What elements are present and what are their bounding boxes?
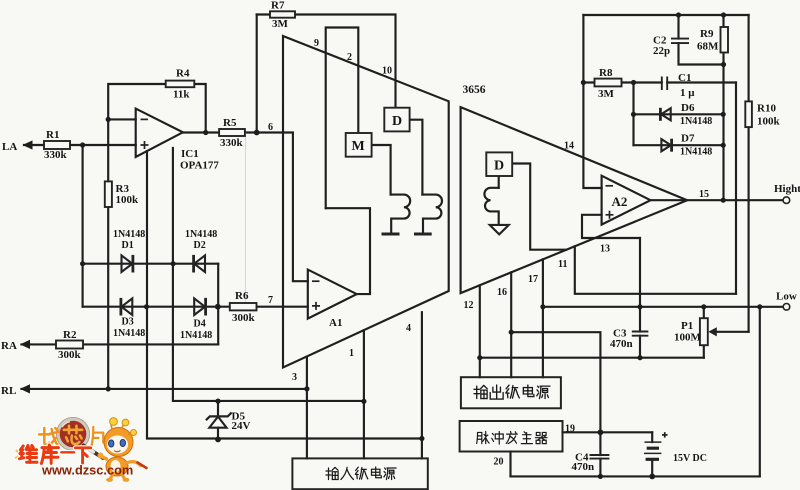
zener D5 24V triangle (209, 417, 226, 428)
svg-text:470n: 470n (572, 461, 595, 473)
node D3 row junction V- (144, 304, 149, 309)
label char 级 of 输入级电源 (355, 467, 368, 479)
svg-text:D1: D1 (122, 240, 134, 251)
svg-text:15V DC: 15V DC (673, 453, 707, 464)
svg-text:R5: R5 (223, 117, 237, 129)
wire C4 stems (599, 432, 601, 476)
diode D1 1N4148 triangle (122, 255, 133, 272)
svg-text:470n: 470n (610, 338, 633, 350)
label char 生 of 脉冲发生器 (521, 432, 532, 444)
wire RL input row (22, 388, 307, 390)
wire C2 branch (679, 15, 724, 65)
wire R4 right down to output row (194, 84, 205, 133)
watermark char 一 (61, 451, 74, 454)
svg-text:20: 20 (494, 457, 504, 468)
wire right vertical Low to bottom rail (759, 307, 761, 477)
svg-text:1N4148: 1N4148 (113, 328, 145, 339)
3656 output section triangle (461, 107, 688, 293)
wire pin 3 vertical to supply box (306, 357, 308, 459)
3656 input section trapezoid (283, 36, 449, 368)
wire C1 right plate to vertical (667, 81, 736, 83)
watermark char 下 (75, 448, 90, 463)
svg-text:300k: 300k (232, 312, 256, 324)
PARTS_START (44, 11, 752, 348)
svg-text:P1: P1 (681, 320, 693, 332)
wire A1 output loop (326, 208, 370, 294)
svg-text:R2: R2 (63, 329, 77, 341)
diode D3 1N4148 triangle (122, 298, 133, 315)
coil L1 under M box (391, 195, 411, 232)
arrowhead RL (20, 384, 30, 393)
wire pin 15 output row to Hight terminal (651, 199, 784, 201)
wire R3 vertical from minus node to RL row (107, 119, 109, 389)
node D6 anode junction (631, 112, 636, 117)
wire M box right to modulator coil (372, 145, 391, 195)
resistor R5 330k (219, 129, 245, 136)
wire battery stems (651, 432, 653, 476)
coil L2 under D box (422, 195, 442, 232)
capacitor C3 470n plates (632, 332, 649, 336)
wire pin 17 vertical (542, 259, 544, 377)
svg-text:IC1: IC1 (181, 148, 199, 160)
node pin16 row junction (509, 330, 514, 335)
diode D4 bar (204, 298, 207, 316)
wire top rail R8/C2/R9/R10 (583, 14, 748, 16)
wire LA node vertical down to diode rows (82, 145, 84, 307)
node LA/R1 junction (80, 142, 85, 147)
svg-text:24V: 24V (232, 420, 251, 432)
node C3 bottom on row358 (637, 355, 642, 360)
diode D4 1N4148 triangle (194, 298, 205, 315)
ground arrow under output D box (490, 225, 509, 235)
magnifier circle of watermark (58, 419, 88, 449)
svg-text:4: 4 (406, 323, 411, 334)
node R9 top on rail (721, 12, 726, 17)
mascot mouth (114, 451, 121, 452)
resistor R6 300k (230, 303, 257, 310)
resistor R3 100k (105, 181, 112, 207)
svg-text:D3: D3 (122, 317, 134, 328)
svg-text:330k: 330k (44, 149, 68, 161)
label char 源 of 输入级电源 (384, 468, 396, 480)
diode D7 1N4148 triangle (661, 139, 671, 151)
watermark 维库一下 white outline (19, 445, 90, 463)
wire P1 stubs (703, 307, 705, 358)
wire D7 row (634, 144, 724, 146)
mascot head (104, 428, 133, 457)
label char 发 of 脉冲发生器 (506, 431, 517, 443)
wire D6 row (634, 113, 724, 115)
svg-text:1N4148: 1N4148 (113, 229, 145, 240)
capacitor C4 470n plates (590, 455, 610, 459)
watermark char 芯 inside magnifier (64, 426, 82, 444)
node C4 bottom on bottom rail (598, 474, 603, 479)
svg-text:R6: R6 (235, 290, 249, 302)
node right drop on Low rail (757, 304, 762, 309)
A2 plus sign (606, 211, 614, 219)
wire D out box right (512, 164, 566, 250)
node D5 anode row (215, 399, 220, 404)
resistor R7 3M (270, 11, 295, 17)
node D1 row junction V+ (171, 261, 176, 266)
ground bar under coil L1 (382, 233, 400, 236)
svg-text:1 μ: 1 μ (680, 87, 695, 99)
wire RA input row (22, 343, 219, 345)
box 脉冲发生器 pulse generator (460, 421, 563, 452)
svg-text:1: 1 (349, 348, 354, 359)
svg-text:9: 9 (314, 38, 319, 49)
watermark sparkle (15, 450, 21, 458)
node IC1 inverting input (106, 117, 111, 122)
op-amp IC1 triangle (136, 109, 183, 157)
svg-text:330k: 330k (220, 137, 244, 149)
resistor R2 300k (56, 341, 83, 349)
resistor R9 68M (721, 27, 729, 53)
battery B1 15V DC plates (644, 442, 661, 459)
svg-text:19: 19 (565, 424, 575, 435)
label char 出 of 输出级电源 (490, 385, 503, 399)
wire R9 branch (722, 15, 724, 200)
label char 输 of 输出级电源 (474, 385, 487, 398)
svg-text:LA: LA (2, 141, 17, 153)
mascot body (106, 457, 128, 476)
wire pin 14 vertical to A2 minus (583, 15, 601, 188)
A1 plus sign (312, 302, 320, 310)
diode D2 1N4148 triangle (194, 255, 205, 272)
mascot left arm to handle (101, 456, 107, 460)
svg-text:13: 13 (600, 244, 610, 255)
watermark char 找 white outline (39, 427, 103, 446)
coil L3 under output D box (484, 188, 498, 225)
node pin4 on row3 (419, 436, 424, 441)
svg-text:16: 16 (497, 287, 507, 298)
svg-text:R4: R4 (176, 68, 190, 80)
node pin1 on row2 (361, 399, 366, 404)
wire node 6 up to R7 row (256, 15, 258, 133)
svg-text:A2: A2 (612, 194, 628, 209)
node pin12 on row358 (477, 355, 482, 360)
svg-text:3M: 3M (598, 88, 615, 100)
svg-text:12: 12 (464, 300, 474, 311)
svg-text:D: D (392, 114, 402, 129)
svg-text:1N4148: 1N4148 (180, 330, 212, 341)
svg-text:Low: Low (776, 291, 797, 303)
terminal Hight (783, 197, 790, 204)
wire vertical D2 cathode to RA row (217, 264, 219, 345)
box 输出级电源 output stage supply (461, 377, 561, 408)
svg-text:R1: R1 (46, 129, 59, 141)
demodulator D box input section (384, 108, 409, 132)
resistor R8 3M (595, 79, 622, 87)
terminal Low (783, 304, 790, 311)
node pin19/C4 junction (598, 429, 604, 435)
watermark char 片 orange (91, 427, 103, 446)
svg-text:300k: 300k (58, 349, 82, 361)
wire pin 19 row (563, 431, 653, 433)
demodulator D box output section (486, 152, 512, 176)
diode D6 1N4148 triangle (661, 108, 671, 120)
svg-text:17: 17 (528, 274, 538, 285)
svg-text:68M: 68M (697, 41, 719, 53)
svg-text:M: M (352, 139, 365, 154)
node D5 cathode row3 (215, 437, 221, 443)
wire internal rect pins 9/2 to M box (326, 28, 359, 209)
wire pin 11 row to C1 node (575, 246, 736, 293)
IC1 plus sign (141, 141, 149, 149)
wire D5 stems (217, 401, 219, 439)
svg-text:R10: R10 (757, 103, 776, 115)
diode D3 bar (120, 298, 123, 316)
svg-text:D6: D6 (681, 102, 695, 114)
svg-text:2: 2 (347, 52, 352, 63)
op-amp A2 triangle (602, 176, 651, 225)
wire IC1 output row / R5 / node6 to A1 minus input (183, 133, 308, 282)
wire pin 1 vertical to supply box (363, 330, 365, 458)
node pin15 output junction (721, 198, 726, 203)
label char 电 of 输出级电源 (523, 385, 534, 397)
label char 电 of 输入级电源 (372, 467, 382, 478)
svg-text:C1: C1 (678, 72, 691, 84)
node R8 right / C1 left (631, 80, 636, 85)
svg-text:RA: RA (1, 340, 17, 352)
diode D2 bar (192, 255, 195, 273)
svg-text:10: 10 (382, 66, 392, 77)
watermark char 找 orange (39, 427, 103, 446)
scan artifact faint vertical (245, 133, 247, 306)
watermark char 库 (41, 445, 58, 463)
svg-text:D: D (494, 159, 504, 174)
svg-text:OPA177: OPA177 (180, 160, 219, 172)
svg-text:15: 15 (699, 189, 709, 200)
wire R8 row to C1 left plate (583, 81, 661, 83)
mascot antenna stems (111, 422, 132, 435)
node C2 top on rail (676, 12, 681, 17)
potentiometer P1 100M body (700, 318, 708, 345)
wire D out box bottom to coil (498, 176, 500, 188)
wire IC1 V- vertical to bottom row3 (147, 151, 422, 438)
svg-text:D2: D2 (194, 240, 206, 251)
node P1 top on Low rail (701, 304, 706, 309)
svg-text:R9: R9 (700, 28, 714, 40)
wire LA input row (24, 144, 136, 146)
wire pin 20 vertical (509, 452, 511, 477)
modulator M box (346, 133, 372, 157)
diode D1 bar (131, 255, 134, 273)
ground bar under coil L2 (414, 233, 432, 236)
svg-text:3M: 3M (272, 18, 289, 30)
arrowhead LA (23, 140, 33, 149)
node battery minus on bottom rail (649, 474, 655, 480)
label char 输 of 输入级电源 (326, 467, 338, 479)
op-amp A1 triangle (308, 270, 357, 319)
A2 minus sign (606, 185, 614, 187)
svg-text:11: 11 (558, 259, 567, 270)
wire IC1 V+ vertical to D5 row2 (173, 148, 364, 401)
wire pin 13 / C3 vertical (639, 238, 641, 358)
svg-text:A1: A1 (329, 317, 342, 329)
magnifier handle (84, 446, 104, 459)
node pin3 on RL row (304, 386, 309, 391)
wire row 358 / C3 bottom / P1 bottom (480, 357, 704, 359)
svg-text:11k: 11k (173, 89, 190, 101)
svg-text:100k: 100k (116, 194, 140, 206)
mascot right arm with pencil (128, 462, 141, 466)
svg-text:3656: 3656 (463, 84, 486, 96)
A1 minus sign (312, 280, 320, 282)
wire P1 wiper to R10 chain (717, 331, 749, 333)
node 6 junction (254, 130, 260, 136)
node pin13/C3 on Low rail (637, 304, 642, 309)
wire IC1 minus input row (108, 118, 136, 120)
wire bottom rail (511, 475, 760, 477)
wire D3-D4 / R6 / pin7 row to A1 plus input (83, 306, 308, 308)
svg-text:www.dzsc.com: www.dzsc.com (41, 463, 133, 478)
node pin17 on Low rail (540, 304, 545, 309)
wire R8 right node vertical (632, 83, 634, 146)
wire feedback up to R4 left (108, 84, 166, 119)
wire C1 right vertical down to pin11 row (735, 83, 737, 294)
wire D1-D2 row (83, 263, 219, 265)
svg-text:7: 7 (268, 295, 273, 306)
potentiometer P1 wiper arrow (708, 327, 717, 336)
svg-text:D7: D7 (681, 133, 695, 145)
label char 入 of 输入级电源 (341, 467, 354, 479)
wire pin 16 vertical (510, 272, 512, 377)
diode D7 bar (670, 139, 673, 152)
label char 器 of 脉冲发生器 (535, 432, 547, 443)
svg-text:1N4148: 1N4148 (185, 229, 217, 240)
wire pin 12 vertical (479, 285, 481, 377)
label char 源 of 输出级电源 (537, 386, 550, 398)
node R9/C2 bottom (721, 62, 726, 67)
svg-text:1N4148: 1N4148 (680, 116, 712, 127)
svg-text:100M: 100M (674, 332, 702, 344)
mascot face (107, 436, 128, 454)
node R3 bottom on RL row (106, 386, 111, 391)
svg-text:22p: 22p (653, 45, 670, 57)
svg-text:14: 14 (564, 141, 574, 152)
svg-text:6: 6 (268, 122, 273, 133)
battery plus sign (662, 432, 668, 438)
capacitor C2 22p plates (671, 39, 689, 44)
svg-text:RL: RL (1, 385, 16, 397)
resistor R4 11k (166, 81, 195, 88)
resistor R10 100k (745, 101, 752, 127)
mascot eyes (109, 440, 114, 447)
resistor R1 330k (44, 141, 70, 149)
wire R7 row and down to D box top (pin 10) (257, 15, 396, 108)
wire A2 plus input path (582, 215, 640, 238)
label char 级 of 输出级电源 (506, 385, 520, 398)
label char 脉 of 脉冲发生器 (477, 431, 489, 443)
diode D6 bar (659, 108, 662, 121)
wire D box right to demod coil (410, 120, 423, 195)
wire pin16 row to C4 node vertical (511, 332, 600, 432)
mascot legs and feet (111, 475, 125, 479)
svg-text:R7: R7 (271, 0, 285, 12)
wire pin 4 vertical to supply box (421, 312, 423, 458)
svg-text:Hight: Hight (774, 183, 800, 195)
svg-text:R8: R8 (599, 67, 613, 79)
zener D5 bar with tails (206, 413, 232, 421)
node D7 anode junction (721, 143, 726, 148)
node D6 cathode junction (721, 112, 726, 117)
IC1 minus sign (141, 118, 149, 120)
node R8 left / pin14 net (581, 80, 586, 85)
box 输入级电源 input stage supply (292, 458, 427, 489)
wire R10 vertical chain (748, 15, 750, 332)
svg-text:3: 3 (292, 372, 297, 383)
wire Low rail (543, 306, 783, 308)
label char 冲 of 脉冲发生器 (492, 431, 503, 444)
mascot antenna bulbs (110, 418, 137, 436)
node D1 row left junction (80, 261, 85, 266)
capacitor C1 1u plates (662, 77, 667, 91)
watermark char 维 (19, 445, 37, 462)
svg-text:1N4148: 1N4148 (680, 147, 712, 158)
node R4/IC1 output junction (203, 130, 208, 135)
svg-text:100k: 100k (757, 116, 781, 128)
svg-text:D4: D4 (194, 319, 206, 330)
node D4/R6 junction pin7 net (215, 304, 221, 310)
arrowhead RA (20, 340, 30, 349)
